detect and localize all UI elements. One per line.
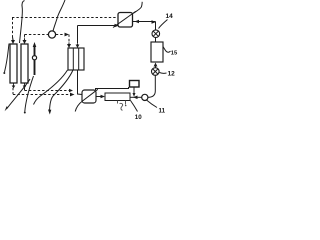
pipe S2 vertical into heat exchanger (77, 26, 79, 44)
pipe S4 down to valve 14 (155, 22, 157, 31)
svg-text:14: 14 (166, 13, 174, 20)
leader curve L9 with dot (25, 76, 34, 112)
blower 8 box (82, 90, 96, 103)
pipe S10 from heat exchanger down to blower (78, 70, 83, 95)
pipe S8 pump to cooler with arrow (130, 96, 142, 98)
pipe S1 horizontal to unit 18 (78, 25, 117, 27)
arrow on D3 into corner (65, 33, 70, 37)
leader from cooler to label 10 (131, 101, 138, 112)
leader curve L7 to vessel 4 with dot (5, 44, 10, 73)
leader curve L10 from heat exchanger (34, 70, 68, 105)
valve 14 crossed circle (152, 30, 160, 38)
pipe S9 blower to cooler with arrow (97, 96, 102, 98)
vessel 2 bottom stub and arrow (24, 83, 26, 85)
stub with dot below cooler (125, 101, 127, 105)
damper box on stem (130, 81, 140, 88)
wire dashed control line D4 vertical to vessel 2 (24, 35, 26, 38)
wire dashed upper bottom line D6a (25, 90, 70, 92)
svg-text:15: 15 (171, 51, 178, 57)
vessel 4 left adsorber (10, 44, 17, 83)
leader hook for unit 18 (133, 2, 142, 14)
heat exchanger 7 three-section box (68, 48, 84, 70)
unit 18 box (118, 13, 133, 28)
valve 12 crossed circle (152, 68, 160, 76)
leader from vessel 15 to label (163, 47, 171, 53)
pipe S5 valve 14 to vessel 15 (155, 38, 157, 43)
stub and squiggle label 9 (117, 101, 119, 104)
pipe S7 down to pump 11 (148, 76, 156, 98)
wire dashed bottom line D6 (13, 94, 70, 96)
pipe diagonal through unit 18 (113, 11, 136, 27)
wire dashed control line D2 vertical to vessel 1 (12, 18, 14, 38)
pipe S11 blower top to damper box (96, 87, 129, 90)
arrow into vessel 2 top (23, 36, 27, 44)
wire dashed control line D3 horizontal mid (25, 34, 49, 36)
vessel 5 right adsorber (21, 44, 28, 83)
leader hook label 2 top left (20, 1, 25, 44)
vessel 1 bottom stub and arrow (13, 83, 15, 85)
svg-text:10: 10 (135, 114, 142, 120)
wire dashed D7 below vessel 1 (12, 88, 14, 95)
leader from pump 11 to label (147, 100, 158, 108)
wire dashed control line D1 top horizontal (12, 17, 117, 19)
vessel 15 (151, 42, 163, 62)
leader from valve 12 to label (160, 72, 167, 75)
wire dashed control line D5 vertical into heat exchanger (68, 35, 70, 43)
cooler 9 10 long box (105, 93, 130, 101)
wire dashed D8 below vessel 2 (24, 88, 26, 91)
damper stem (133, 87, 135, 94)
leader to sensor 3 from top (53, 0, 65, 31)
leader curve L12 from heat exchanger with arrow (50, 70, 74, 111)
leader from label 14 to valve (159, 20, 168, 29)
arrow into vessel 1 top (11, 37, 15, 44)
leader curve L8 bottom left with arrow (7, 79, 31, 109)
svg-text:11: 11 (159, 107, 166, 114)
sensor circle 3 on dashed line (48, 31, 55, 38)
arrow into unit 18 (115, 24, 120, 28)
flow meter device 6 with float circle (34, 46, 36, 56)
svg-text:12: 12 (168, 71, 176, 78)
pipe S3 from unit 18 to corner (133, 21, 156, 23)
pipe S6 vessel 15 bottom with up arrow (155, 64, 157, 68)
pump 11 circle (142, 94, 148, 100)
pipe diagonal through blower 8 and leader tail (75, 89, 98, 111)
